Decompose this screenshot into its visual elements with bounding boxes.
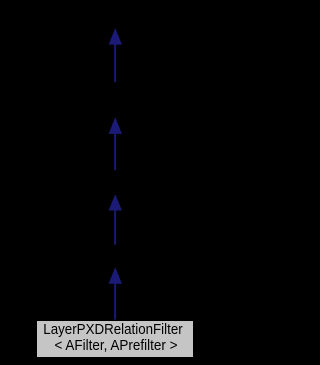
inheritance arrow 2: [109, 117, 122, 170]
inheritance arrow 4 (above class box): [109, 267, 122, 319]
inheritance arrow 1 (topmost): [109, 28, 122, 82]
node LayerPXDRelationFilter class box: [36, 320, 194, 358]
inheritance arrow 3: [109, 194, 122, 244]
